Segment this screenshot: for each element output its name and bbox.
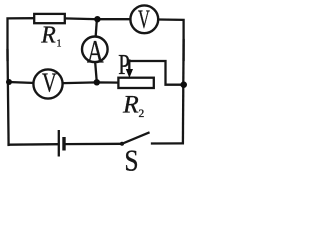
battery long plate (58, 130, 60, 157)
wire ammeter top stub (96, 19, 97, 36)
wire right side vertical (182, 40, 185, 143)
node junction below ammeter (94, 79, 100, 85)
resistor R1 (34, 14, 65, 23)
svg-text:V: V (42, 68, 57, 99)
svg-text:V: V (138, 5, 150, 34)
voltmeter V2 (33, 69, 62, 98)
svg-text:1: 1 (57, 39, 62, 50)
node junction left (V2 branch) (6, 79, 12, 85)
wire middle branch (9, 82, 118, 84)
wire R1 to node A-top (65, 17, 98, 20)
wire slider loop (129, 61, 183, 85)
wire ammeter bottom stub (95, 63, 97, 83)
switch pivot (120, 142, 124, 146)
svg-text:P: P (118, 50, 130, 81)
wire V1 to top-right corner (159, 20, 184, 61)
rheostat slider arrow P (128, 61, 130, 71)
node junction right (slider to right wire) (180, 81, 187, 88)
wire top-left to R1 (8, 18, 35, 60)
wire bottom left (9, 143, 58, 146)
rheostat R2 (118, 78, 153, 88)
svg-text:R: R (40, 22, 56, 48)
node junction top (R1/A/V1) (94, 16, 100, 22)
wire left side vertical (8, 50, 9, 145)
battery short plate (62, 137, 65, 151)
voltmeter V1 (130, 5, 158, 33)
svg-text:R: R (122, 89, 139, 118)
svg-text:2: 2 (139, 108, 145, 120)
wire switch right contact to corner (152, 142, 183, 144)
wire node to V1 (97, 18, 130, 20)
switch lever (122, 133, 149, 144)
wire battery to switch (66, 143, 122, 146)
svg-text:S: S (124, 143, 138, 172)
ammeter A1 (82, 37, 108, 63)
svg-text:A: A (87, 34, 104, 70)
